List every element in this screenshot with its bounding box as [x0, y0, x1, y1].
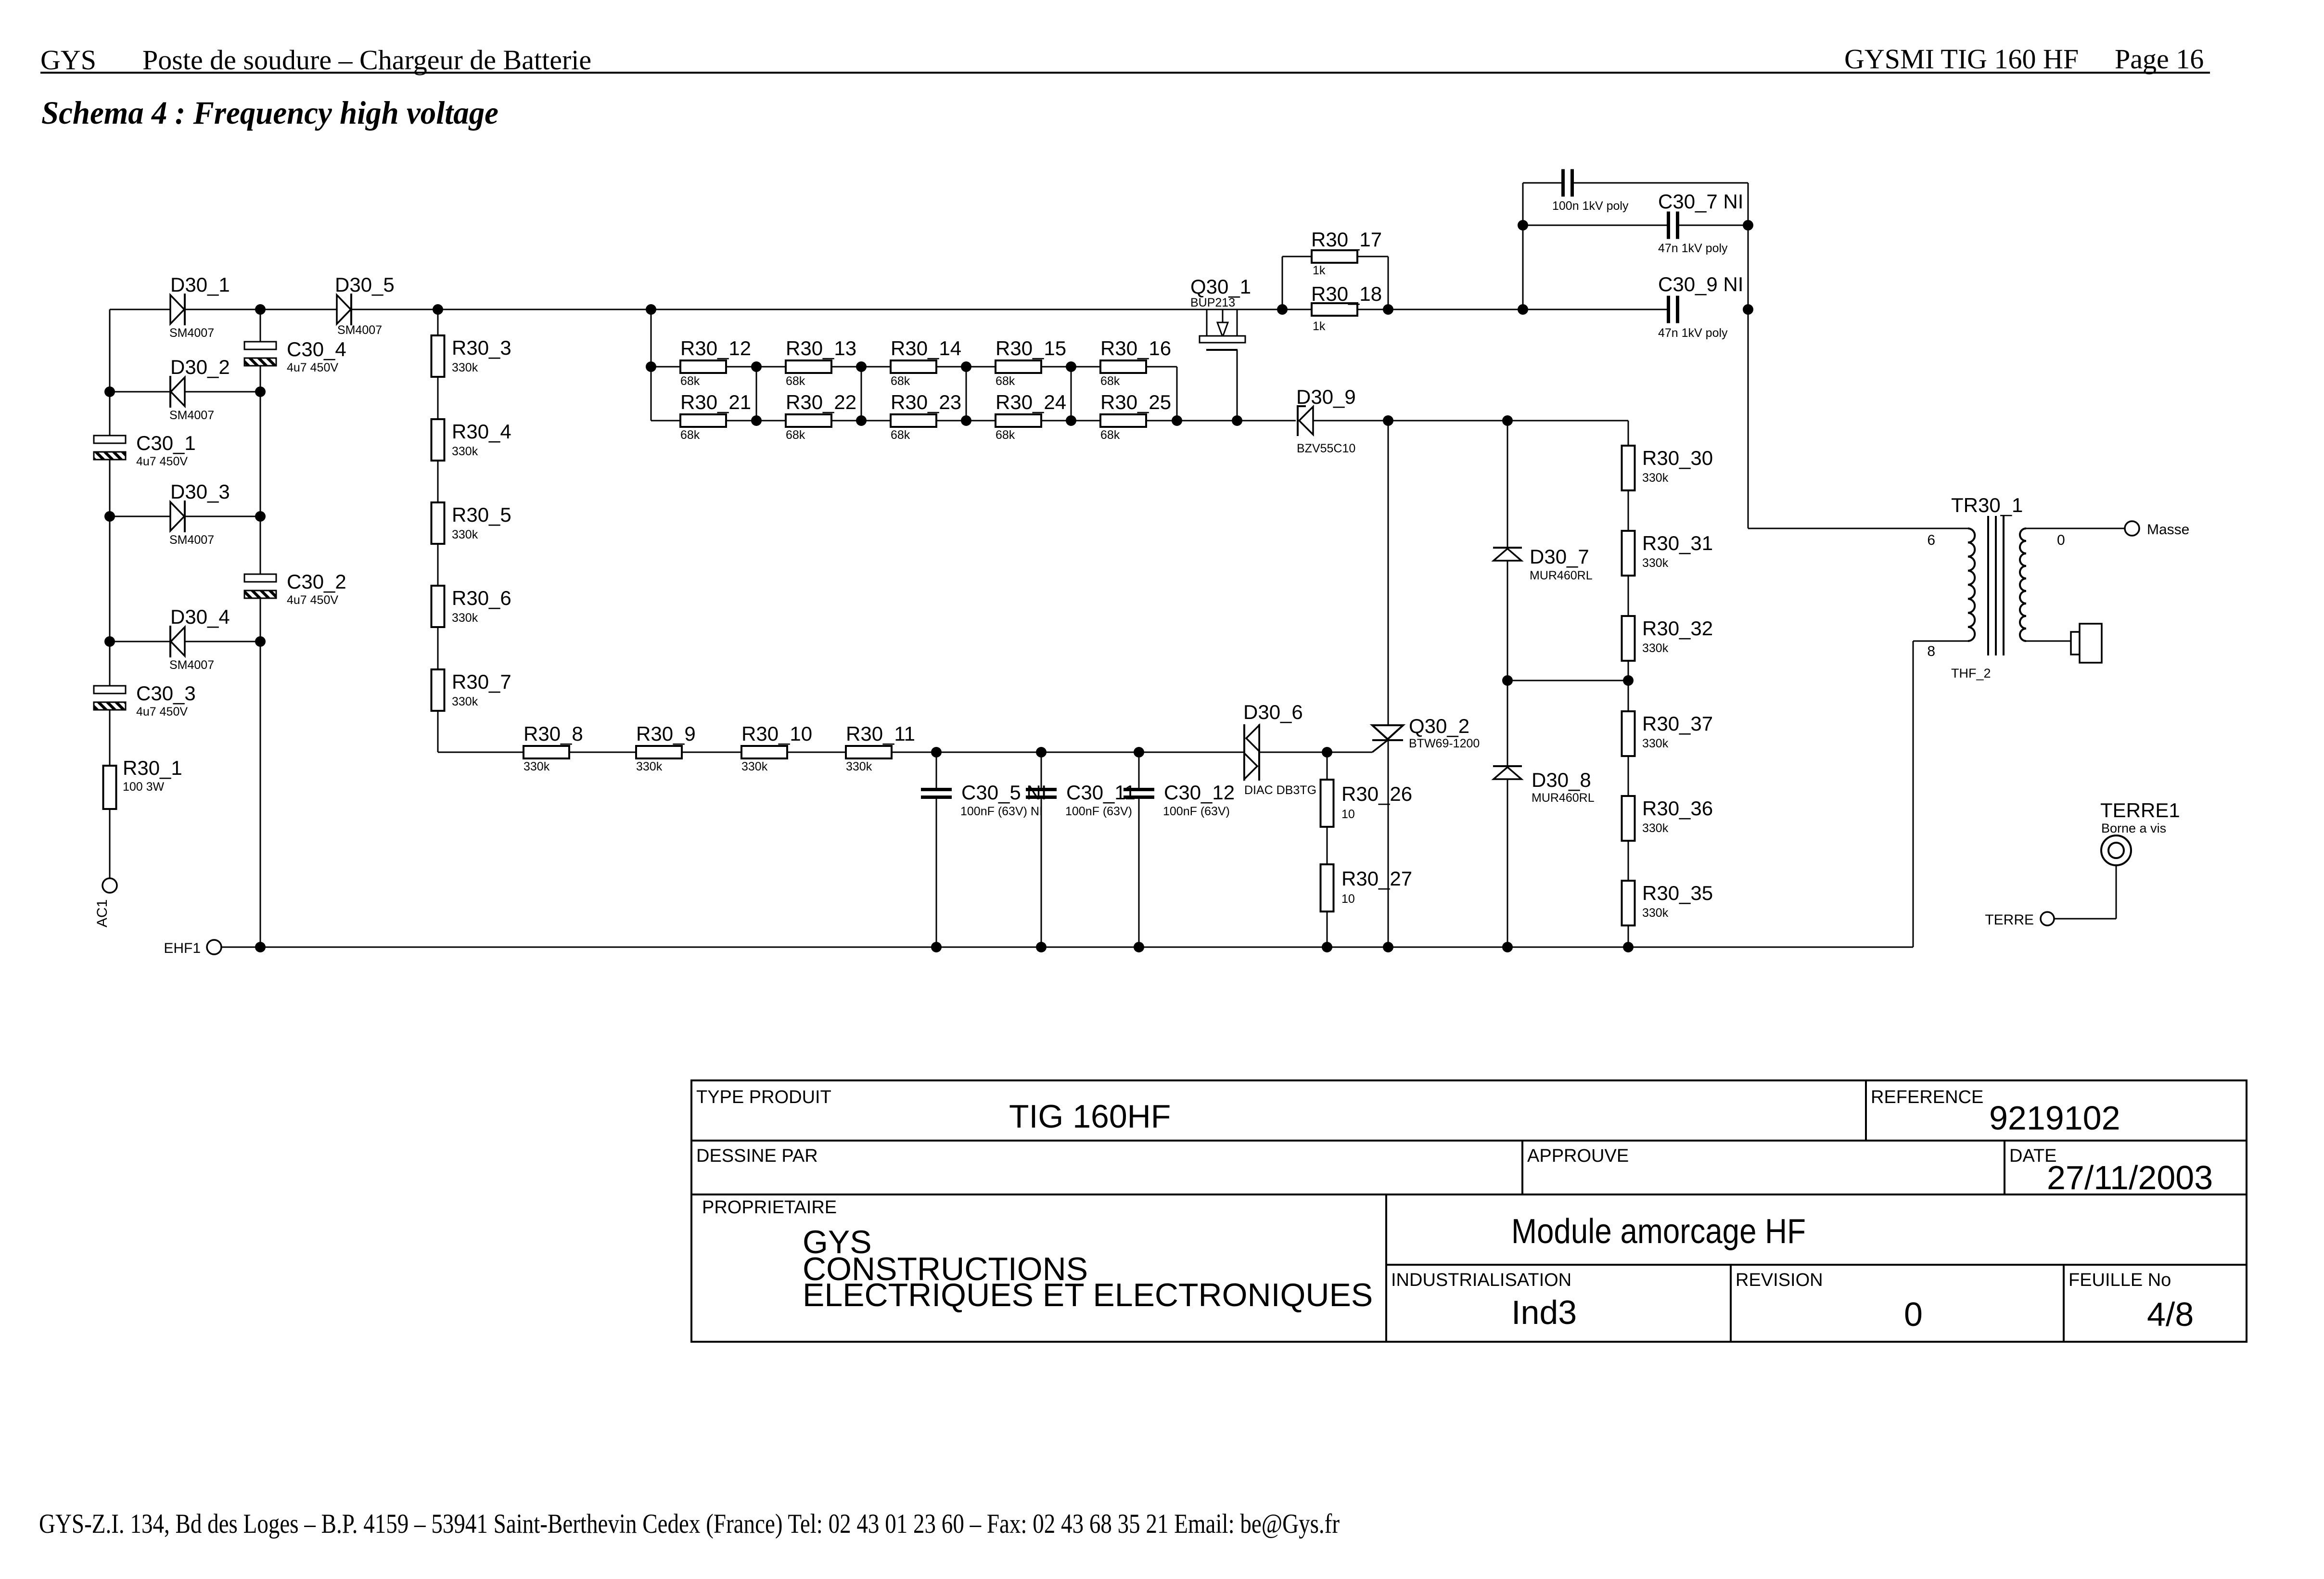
svg-text:AC1: AC1 [94, 899, 110, 927]
diode D30_5 [337, 295, 351, 324]
node C30_11 [1036, 747, 1047, 757]
svg-text:6: 6 [1927, 532, 1935, 548]
node R30_27 bottom [1322, 942, 1332, 952]
svg-text:BTW69-1200: BTW69-1200 [1409, 737, 1480, 750]
resistor R30_32 [1622, 616, 1635, 661]
wire [861, 366, 891, 368]
wire top rail right of R30_18 [1357, 309, 1669, 310]
wire [651, 366, 680, 368]
svg-text:R30_13: R30_13 [786, 337, 856, 359]
resistor R30_16 [1100, 360, 1146, 373]
svg-text:APPROUVE: APPROUVE [1527, 1146, 1629, 1166]
svg-text:SM4007: SM4007 [169, 409, 214, 422]
bottom rail [221, 947, 1913, 948]
terminal TERRE [2041, 912, 2054, 925]
terminal EHF1 [207, 940, 221, 954]
wire [437, 377, 439, 419]
svg-text:R30_27: R30_27 [1341, 867, 1412, 890]
svg-text:D30_8: D30_8 [1532, 769, 1591, 791]
svg-text:27/11/2003: 27/11/2003 [2047, 1159, 2213, 1196]
svg-text:D30_4: D30_4 [170, 605, 230, 628]
wire R30_17 right [1357, 256, 1388, 257]
capacitor C30_2 [244, 574, 276, 582]
spark gap electrode [2071, 632, 2080, 655]
svg-text:SM4007: SM4007 [169, 326, 214, 340]
svg-text:Module amorcage HF: Module amorcage HF [1511, 1212, 1806, 1251]
svg-text:47n 1kV poly: 47n 1kV poly [1658, 242, 1728, 255]
svg-text:68k: 68k [1100, 374, 1120, 388]
resistor R30_31 [1622, 531, 1635, 576]
diode D30_8 MUR460RL [1493, 765, 1522, 767]
title block outer frame [691, 1080, 2247, 1342]
svg-text:R30_12: R30_12 [680, 337, 751, 359]
node R30_35 bottom [1623, 942, 1634, 952]
svg-text:D30_1: D30_1 [170, 273, 230, 296]
svg-text:PROPRIETAIRE: PROPRIETAIRE [702, 1197, 837, 1218]
wire [1071, 366, 1100, 368]
resistor R30_25 [1100, 414, 1146, 427]
resistor R30_18 [1312, 303, 1357, 316]
wire R30_32 to mid row [1628, 661, 1629, 680]
wire Q30_2 anode [1388, 421, 1389, 725]
svg-text:R30_3: R30_3 [452, 336, 511, 359]
svg-text:4/8: 4/8 [2147, 1296, 2194, 1333]
svg-text:Poste de soudure – Chargeur de: Poste de soudure – Chargeur de Batterie [142, 44, 591, 76]
svg-text:10: 10 [1341, 808, 1355, 821]
diode D30_2 [110, 391, 169, 393]
wire secondary to Masse [2026, 528, 2125, 529]
svg-text:330k: 330k [452, 695, 478, 708]
node bottom [1134, 942, 1144, 952]
svg-text:9219102: 9219102 [1989, 1099, 2120, 1137]
wire R30_26-27 [1327, 827, 1328, 864]
svg-text:R30_31: R30_31 [1642, 532, 1713, 554]
wire top loop left vertical [1522, 183, 1524, 309]
wire Q30_1 gate down [1237, 350, 1238, 421]
wire [1071, 420, 1100, 422]
svg-text:THF_2: THF_2 [1951, 666, 1991, 680]
svg-text:DIAC DB3TG: DIAC DB3TG [1244, 783, 1316, 797]
capacitor C30_3 [94, 686, 126, 693]
header underline [40, 72, 2210, 74]
wire [1628, 841, 1629, 881]
wire junction column [861, 367, 862, 421]
wire [861, 420, 891, 422]
svg-text:REFERENCE: REFERENCE [1871, 1087, 1983, 1107]
svg-text:68k: 68k [891, 374, 910, 388]
resistor R30_35 [1622, 881, 1635, 925]
node D30_8 bottom [1502, 942, 1513, 952]
svg-text:R30_1: R30_1 [123, 757, 182, 779]
svg-text:REVISION: REVISION [1736, 1270, 1823, 1290]
wire [966, 420, 996, 422]
wire D30_8 top [1507, 680, 1508, 766]
svg-text:D30_2: D30_2 [170, 356, 230, 378]
svg-text:TYPE PRODUIT: TYPE PRODUIT [696, 1087, 831, 1107]
wire [756, 366, 786, 368]
title block row line 3 [1386, 1264, 2247, 1266]
wire [437, 461, 439, 502]
node Q30_2 bottom [1383, 942, 1393, 952]
wire TERRE1 down [2116, 865, 2117, 919]
svg-text:R30_23: R30_23 [891, 391, 961, 413]
svg-text:R30_24: R30_24 [996, 391, 1066, 413]
node [856, 361, 867, 372]
svg-text:100nF (63V): 100nF (63V) [1065, 805, 1132, 818]
wire R30_30 column top [1628, 421, 1629, 446]
wire R30_10-11 [787, 752, 846, 753]
svg-text:100n 1kV poly: 100n 1kV poly [1552, 199, 1629, 213]
svg-text:47n 1kV poly: 47n 1kV poly [1658, 326, 1728, 340]
svg-text:BZV55C10: BZV55C10 [1297, 442, 1355, 455]
node C30_7 left [1518, 220, 1528, 231]
svg-text:MUR460RL: MUR460RL [1532, 791, 1595, 805]
node R30_18 right [1383, 304, 1393, 315]
svg-text:100nF (63V) NI: 100nF (63V) NI [960, 805, 1043, 818]
svg-text:C30_5 NI: C30_5 NI [961, 781, 1047, 804]
svg-text:330k: 330k [524, 760, 550, 773]
node [961, 361, 971, 372]
wire [1628, 576, 1629, 616]
svg-text:INDUSTRIALISATION: INDUSTRIALISATION [1391, 1270, 1571, 1290]
wire D30_9 row left [1177, 420, 1296, 422]
resistor R30_36 [1622, 796, 1635, 841]
svg-text:R30_30: R30_30 [1642, 447, 1713, 469]
resistor R30_6 [432, 586, 445, 627]
resistor R30_9 [636, 746, 682, 758]
wire network right vertical [1176, 367, 1178, 421]
node [1066, 361, 1076, 372]
svg-text:R30_32: R30_32 [1642, 617, 1713, 640]
svg-text:Schema 4 : Frequency high volt: Schema 4 : Frequency high voltage [41, 94, 498, 131]
svg-text:C30_4: C30_4 [287, 338, 346, 360]
resistor R30_1 [103, 766, 116, 809]
svg-text:68k: 68k [996, 428, 1015, 442]
svg-text:TR30_1: TR30_1 [1951, 494, 2023, 516]
wire R30_3 column top [437, 309, 439, 335]
svg-text:330k: 330k [1642, 906, 1669, 920]
svg-text:1k: 1k [1313, 320, 1326, 333]
svg-text:GYSMI TIG 160 HF: GYSMI TIG 160 HF [1844, 43, 2079, 75]
svg-text:330k: 330k [452, 611, 478, 625]
svg-text:C30_7 NI: C30_7 NI [1658, 190, 1743, 213]
svg-text:4u7 450V: 4u7 450V [136, 705, 188, 719]
capacitor C30_12 [1138, 752, 1140, 788]
node R30_26 top [1322, 747, 1332, 757]
terminal AC1 [102, 878, 117, 893]
node mid row left [1502, 675, 1513, 686]
node C30_9 right [1743, 304, 1753, 315]
svg-text:Borne a vis: Borne a vis [2101, 821, 2166, 835]
resistor R30_10 [741, 746, 787, 758]
svg-text:R30_35: R30_35 [1642, 882, 1713, 904]
svg-text:330k: 330k [636, 760, 663, 773]
svg-text:100 3W: 100 3W [123, 780, 165, 794]
node top rail / R30_3 column [433, 304, 443, 315]
diode D30_4 [110, 641, 169, 642]
node mid row right [1623, 675, 1634, 686]
terminal TERRE1 Borne a vis [2101, 835, 2131, 865]
resistor R30_12 [680, 360, 726, 373]
svg-text:R30_7: R30_7 [452, 670, 511, 693]
capacitor C30_5 [936, 752, 937, 788]
wire R30_8-9 [569, 752, 636, 753]
node network left [646, 361, 656, 372]
wire top rail left [110, 309, 170, 310]
svg-text:C30_3: C30_3 [136, 682, 196, 705]
svg-text:Ind3: Ind3 [1511, 1294, 1577, 1331]
svg-text:330k: 330k [1642, 737, 1669, 750]
diode D30_7 MUR460RL [1493, 547, 1522, 549]
node R30_18 left [1277, 304, 1288, 315]
resistor R30_17 [1312, 250, 1357, 263]
resistor R30_23 [891, 414, 936, 427]
resistor R30_7 [432, 669, 445, 711]
node bottom [931, 942, 942, 952]
svg-text:0: 0 [1904, 1296, 1923, 1333]
resistor R30_4 [432, 419, 445, 461]
svg-text:R30_18: R30_18 [1311, 282, 1382, 305]
svg-text:68k: 68k [891, 428, 910, 442]
resistor R30_5 [432, 502, 445, 544]
svg-text:R30_15: R30_15 [996, 337, 1066, 359]
svg-text:68k: 68k [786, 428, 805, 442]
diode D30_3 [110, 516, 170, 517]
svg-text:4u7 450V: 4u7 450V [287, 593, 338, 607]
wire [437, 544, 439, 586]
svg-text:330k: 330k [741, 760, 768, 773]
svg-text:Q30_1: Q30_1 [1190, 275, 1251, 298]
resistor R30_24 [996, 414, 1041, 427]
svg-text:SM4007: SM4007 [337, 323, 382, 337]
wire pin8 [1913, 641, 1968, 642]
svg-text:Page 16: Page 16 [2115, 43, 2204, 75]
svg-text:R30_36: R30_36 [1642, 797, 1713, 820]
node C30_5 [931, 747, 942, 757]
svg-text:TERRE1: TERRE1 [2100, 799, 2180, 822]
svg-text:330k: 330k [1642, 642, 1669, 655]
transformer TR30_1 THF_2 [1968, 528, 1975, 641]
wire D30_9 row right [1313, 420, 1628, 422]
svg-text:R30_26: R30_26 [1341, 783, 1412, 805]
svg-text:C30_2: C30_2 [287, 570, 346, 593]
node top rail / C30_4 [255, 304, 266, 315]
resistor R30_8 [524, 746, 569, 758]
capacitor C30_7 NI [1667, 212, 1670, 239]
svg-text:330k: 330k [1642, 822, 1669, 835]
node C30_7 right [1743, 220, 1753, 231]
svg-text:R30_8: R30_8 [524, 722, 583, 745]
svg-text:D30_9: D30_9 [1296, 385, 1356, 408]
svg-text:DESSINE PAR: DESSINE PAR [696, 1146, 818, 1166]
wire junction column [756, 367, 757, 421]
svg-text:100nF (63V): 100nF (63V) [1163, 805, 1230, 818]
node D30_7 column [1502, 415, 1513, 426]
svg-text:TIG 160HF: TIG 160HF [1009, 1098, 1171, 1135]
svg-text:C30_9 NI: C30_9 NI [1658, 273, 1743, 295]
capacitor C30_9 NI [1667, 296, 1670, 323]
resistor R30_27 [1321, 864, 1334, 911]
wire C30_7 row [1523, 225, 1669, 226]
wire gate to Q30_2 [1327, 752, 1372, 753]
node network output [1172, 415, 1182, 426]
wire [437, 627, 439, 669]
svg-text:BUP213: BUP213 [1190, 296, 1235, 309]
svg-text:GYS: GYS [40, 44, 96, 76]
wire DIAC to gate node [1259, 752, 1327, 753]
svg-text:MUR460RL: MUR460RL [1530, 569, 1593, 582]
svg-text:C30_12: C30_12 [1164, 781, 1235, 804]
svg-text:R30_9: R30_9 [636, 722, 696, 745]
title block column lines [1865, 1080, 1867, 1141]
transistor Q30_1 BUP213 [1206, 309, 1208, 336]
svg-text:4u7 450V: 4u7 450V [287, 361, 338, 374]
svg-text:R30_14: R30_14 [891, 337, 961, 359]
wire [1628, 490, 1629, 531]
wire secondary to spark gap [2026, 641, 2071, 642]
svg-text:FEUILLE No: FEUILLE No [2069, 1270, 2171, 1290]
svg-text:R30_21: R30_21 [680, 391, 751, 413]
thyristor Q30_2 BTW69-1200 [1372, 725, 1403, 739]
svg-text:10: 10 [1341, 892, 1355, 906]
diac D30_6 DIAC DB3TG [1243, 724, 1245, 781]
wire R30_7 to R30_8 row [437, 711, 439, 752]
svg-text:R30_10: R30_10 [741, 722, 812, 745]
second rail vertical [260, 309, 261, 342]
svg-text:R30_37: R30_37 [1642, 712, 1713, 735]
wire R30_11 to DIAC [892, 752, 1244, 753]
svg-text:330k: 330k [452, 361, 478, 374]
svg-text:R30_16: R30_16 [1100, 337, 1171, 359]
wire mid row to R30_37 [1628, 680, 1629, 711]
wire network left vertical [651, 309, 652, 421]
wire TERRE1 to TERRE [2054, 918, 2116, 920]
terminal Masse [2125, 521, 2139, 536]
svg-text:D30_3: D30_3 [170, 480, 230, 503]
svg-text:R30_17: R30_17 [1311, 228, 1382, 251]
resistor R30_14 [891, 360, 936, 373]
resistor R30_21 [680, 414, 726, 427]
svg-text:68k: 68k [1100, 428, 1120, 442]
svg-text:330k: 330k [1642, 556, 1669, 570]
svg-text:SM4007: SM4007 [169, 533, 214, 547]
wire R30_9-10 [682, 752, 741, 753]
resistor R30_15 [996, 360, 1041, 373]
resistor R30_11 [846, 746, 892, 758]
wire top loop right vertical [1748, 183, 1749, 528]
wire D30_8 bottom [1507, 779, 1508, 947]
zener diode D30_9 BZV55C10 [1299, 407, 1313, 435]
svg-text:68k: 68k [996, 374, 1015, 388]
left rail vertical [109, 309, 111, 436]
svg-text:D30_6: D30_6 [1243, 701, 1303, 723]
svg-text:1k: 1k [1313, 264, 1326, 277]
svg-text:TERRE: TERRE [1985, 912, 2034, 928]
svg-text:68k: 68k [680, 374, 700, 388]
svg-text:SM4007: SM4007 [169, 658, 214, 672]
resistor R30_37 [1622, 711, 1635, 756]
diode D30_1 [170, 295, 184, 324]
capacitor 100n 1kV poly [1561, 169, 1565, 197]
svg-text:EHF1: EHF1 [164, 940, 201, 956]
wire top rail D30_1 to D30_5 [185, 309, 337, 310]
svg-text:C30_1: C30_1 [136, 432, 196, 454]
svg-text:0: 0 [2057, 532, 2065, 548]
svg-text:330k: 330k [452, 528, 478, 541]
wire [966, 366, 996, 368]
svg-text:330k: 330k [846, 760, 872, 773]
svg-text:R30_22: R30_22 [786, 391, 856, 413]
title block row line 2 [691, 1194, 2247, 1195]
wire R30_27 bottom [1327, 911, 1328, 947]
node bottom [1036, 942, 1047, 952]
wire [756, 420, 786, 422]
wire D30_7 column top [1507, 421, 1508, 548]
node EHF1 / second rail [255, 942, 266, 952]
capacitor C30_1 [94, 436, 126, 443]
capacitor C30_4 [244, 342, 276, 349]
svg-text:Masse: Masse [2147, 522, 2189, 538]
svg-text:R30_6: R30_6 [452, 587, 511, 609]
wire junction column [1071, 367, 1072, 421]
svg-text:R30_11: R30_11 [846, 722, 915, 745]
svg-text:C30_11: C30_11 [1066, 781, 1136, 804]
wire top rail right of D30_5 [351, 309, 1312, 310]
svg-text:8: 8 [1927, 643, 1935, 659]
wire D30_7 to mid node [1507, 561, 1508, 680]
wire R30_17 left [1282, 256, 1312, 257]
wire Q30_2 cathode [1388, 740, 1389, 947]
svg-text:R30_5: R30_5 [452, 503, 511, 526]
node Q30_2 column [1383, 415, 1393, 426]
svg-text:GYS-Z.I. 134, Bd des Loges – B: GYS-Z.I. 134, Bd des Loges – B.P. 4159 –… [39, 1509, 1340, 1539]
resistor R30_3 [432, 335, 445, 377]
wire R30_35 bottom [1628, 925, 1629, 947]
resistor R30_13 [786, 360, 831, 373]
node C30_9 left [1518, 304, 1528, 315]
svg-text:4u7 450V: 4u7 450V [136, 455, 188, 468]
wire pin6 horizontal [1748, 528, 1968, 529]
node top rail / network [646, 304, 656, 315]
wire junction column [966, 367, 967, 421]
node [751, 361, 762, 372]
resistor R30_26 [1321, 780, 1334, 827]
wire top loop horizontal [1523, 182, 1563, 184]
wire R30_26 top [1327, 752, 1328, 780]
svg-text:68k: 68k [680, 428, 700, 442]
svg-text:ELECTRIQUES ET ELECTRONIQUES: ELECTRIQUES ET ELECTRONIQUES [803, 1277, 1373, 1313]
svg-text:68k: 68k [786, 374, 805, 388]
svg-text:R30_25: R30_25 [1100, 391, 1171, 413]
node C30_12 [1134, 747, 1144, 757]
svg-text:D30_7: D30_7 [1530, 545, 1589, 568]
resistor R30_22 [786, 414, 831, 427]
svg-text:R30_4: R30_4 [452, 420, 511, 443]
svg-text:Q30_2: Q30_2 [1409, 715, 1469, 737]
wire mid row [1507, 680, 1628, 681]
node [1232, 415, 1242, 426]
capacitor C30_11 [1041, 752, 1042, 788]
svg-text:330k: 330k [452, 445, 478, 458]
title block row line 1 [691, 1140, 2247, 1142]
wire [651, 420, 680, 422]
wire [1628, 756, 1629, 796]
svg-text:D30_5: D30_5 [335, 273, 395, 296]
resistor R30_30 [1622, 446, 1635, 490]
svg-text:330k: 330k [1642, 471, 1669, 485]
